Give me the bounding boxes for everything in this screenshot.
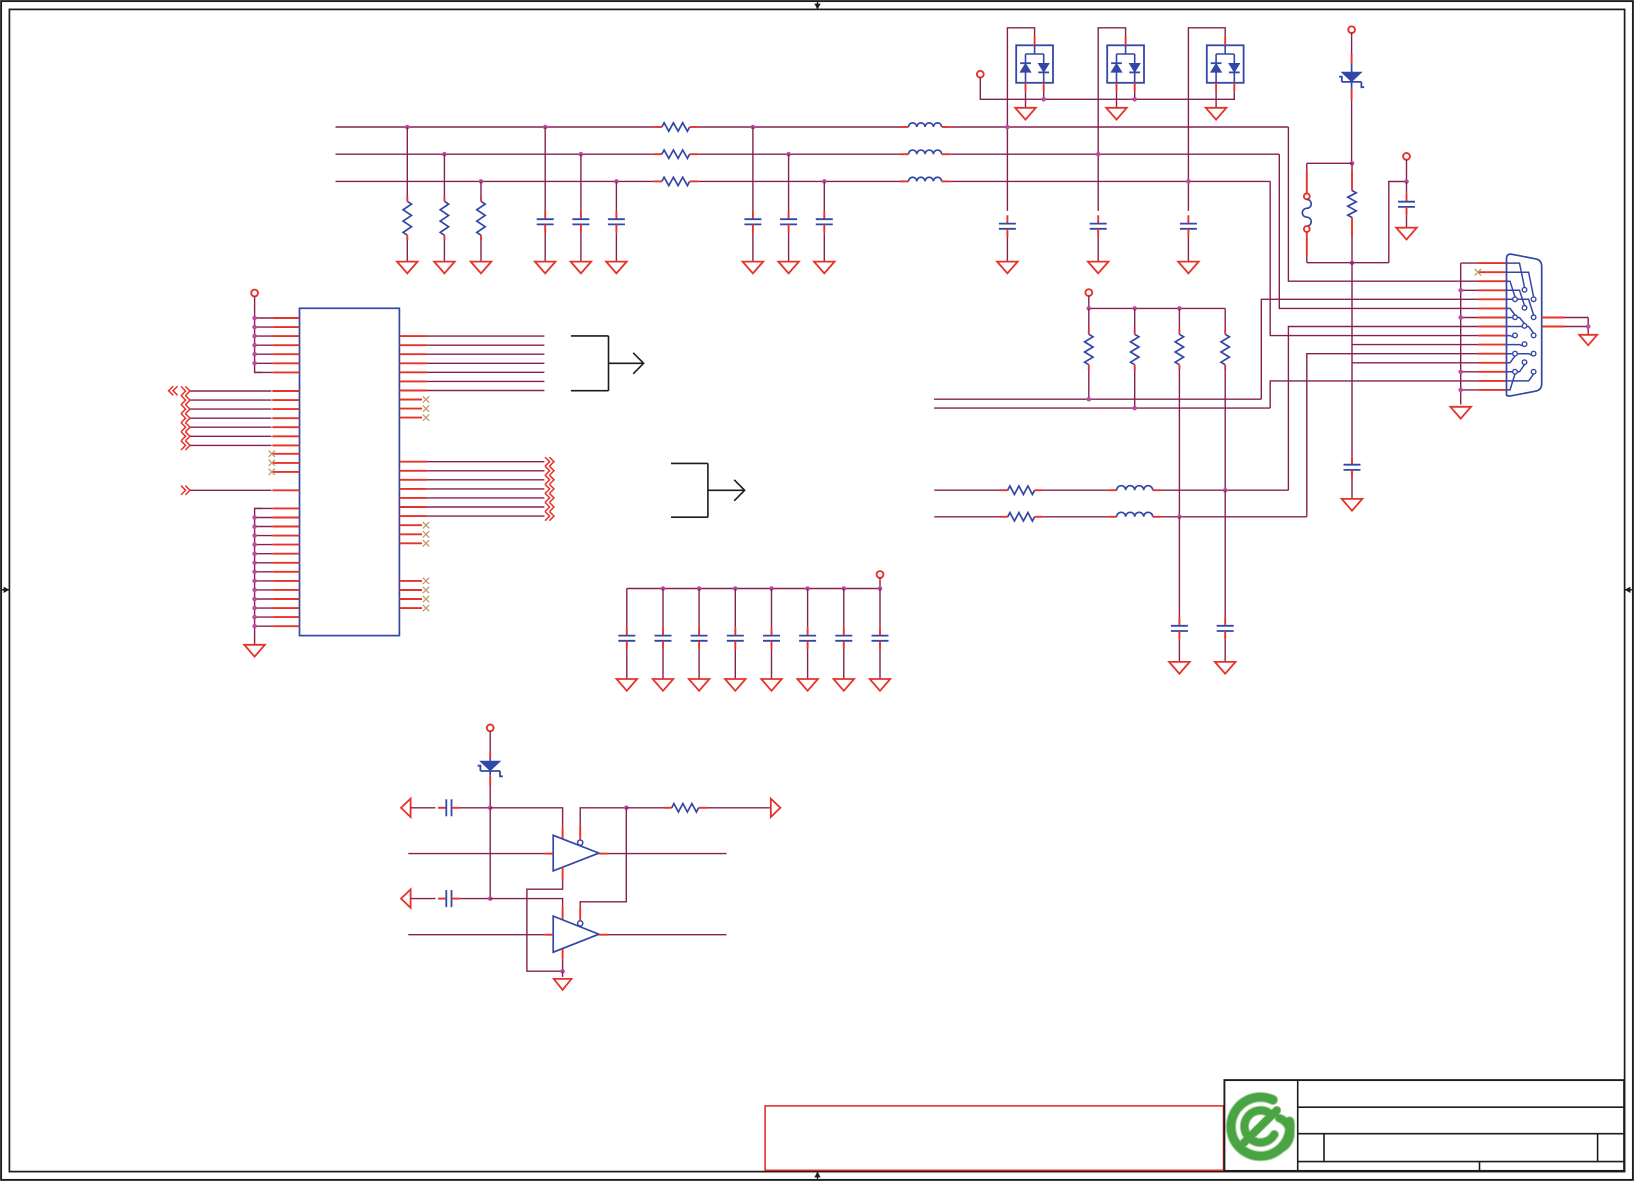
- wire C16 to bus: [698, 589, 700, 628]
- wire C1 to ground: [544, 233, 546, 262]
- capacitor C20: [843, 627, 845, 635]
- node junction R8 top: [1087, 306, 1092, 311]
- wire C20 to bus: [843, 589, 845, 628]
- capacitor C3: [615, 211, 617, 219]
- node junction R9-vsync: [1132, 406, 1137, 411]
- wire U1 right output A5: [399, 371, 426, 373]
- capacitor C15: [662, 627, 664, 635]
- power pin VCC for ESD diodes: [977, 71, 984, 78]
- node junction U1 ground rail: [252, 597, 257, 602]
- wire D2 right pin stub: [1134, 83, 1136, 91]
- resistor R10 pull-up: [1178, 308, 1180, 329]
- wire TVS net to connector pin12: [1352, 362, 1478, 364]
- ground under C6: [814, 262, 835, 274]
- wire C22 to node A: [460, 807, 490, 809]
- wire cap to ground: [1097, 237, 1099, 262]
- ground for buffers: [554, 979, 572, 990]
- no-connect U1 right nc B2: [399, 533, 422, 535]
- resistor R6 series in line: [653, 180, 662, 182]
- capacitor C5: [788, 211, 790, 219]
- frame tick arrow right: [1625, 589, 1632, 591]
- power pin for zener D5: [487, 725, 494, 732]
- no-connect U1 right nc B1: [399, 524, 422, 526]
- wire C2 to bus: [580, 154, 582, 211]
- wire U1 left pin 6: [255, 362, 273, 364]
- no-connect U1 right nc B3: [399, 542, 422, 544]
- diode pair ESD D2: [1107, 45, 1144, 83]
- wire U1 right output A2: [399, 344, 426, 346]
- node junction on bus at C2: [579, 152, 584, 157]
- wire enable net U3: [579, 906, 581, 921]
- wire U1 left pin 2: [255, 326, 273, 328]
- ground under C10: [1396, 228, 1417, 240]
- diode TVS D4: [1351, 64, 1353, 72]
- node junction ground rail pin15: [1458, 388, 1463, 393]
- ground under C18: [761, 679, 782, 691]
- ground under C17: [725, 679, 746, 691]
- node junction buffers ground: [560, 969, 565, 974]
- ground under C15: [653, 679, 674, 691]
- connector J1 DB15 shell: [1507, 254, 1542, 396]
- wire C3 to ground: [615, 233, 617, 262]
- wire VCC rail to ESD right pins: [980, 78, 1234, 100]
- wire enable net to resistor R14: [626, 807, 663, 809]
- wire R2 to ground: [443, 240, 445, 262]
- wire U1 left lower pin 2: [255, 517, 273, 519]
- wire C18 to bus: [771, 589, 773, 628]
- wire C10 to ground: [1406, 215, 1408, 228]
- resistor R5 series in line: [653, 153, 662, 155]
- wire C21 to ground: [879, 649, 881, 679]
- node junction U1 ground rail: [252, 624, 257, 629]
- node junction U1 ground rail: [252, 524, 257, 529]
- resistor R8 pull-up: [1088, 308, 1090, 329]
- node junction on bus at C1: [543, 125, 548, 130]
- ground under C12: [1215, 662, 1236, 674]
- off-page connector bracket 1: [571, 336, 609, 391]
- inductor L1 series in line: [900, 126, 909, 128]
- wire U1 left lower pin 6: [255, 553, 273, 555]
- wire R14 to output port: [707, 807, 771, 809]
- node junction DDC data - R10: [1177, 515, 1182, 520]
- wire R3 to ground: [480, 240, 482, 262]
- node junction ground rail pin4: [1458, 288, 1463, 293]
- wire U1 right output B4: [399, 488, 426, 490]
- wire C19 to bus: [807, 589, 809, 628]
- wire DDC clock line: [934, 489, 999, 491]
- wire U1 left lower pin 9: [255, 580, 273, 582]
- wire C2 to ground: [580, 233, 582, 262]
- enable bubble U3: [578, 921, 583, 926]
- wire U1 right output A7: [399, 390, 426, 392]
- wire C6 to bus: [823, 181, 825, 211]
- resistor R14 series: [663, 807, 672, 809]
- no-connect U1 left nc 1: [272, 453, 299, 455]
- node junction cap bank C19: [805, 586, 810, 591]
- node junction U1 power rail: [252, 343, 257, 348]
- wire U1 left lower pin 3: [255, 526, 273, 528]
- node junction on bus at C6: [822, 179, 827, 184]
- wire U1 bus input 6: [181, 432, 186, 441]
- wire U1 right output B3: [399, 479, 426, 481]
- no-connect U1 left nc 2: [272, 462, 299, 464]
- capacitor C11 on DDC data: [1178, 517, 1180, 618]
- capacitor C6: [823, 211, 825, 219]
- wire C15 to bus: [662, 589, 664, 628]
- node junction enable net: [624, 806, 629, 811]
- connector J1 internal traces and pins: [1507, 263, 1534, 390]
- port output right: [771, 799, 781, 817]
- node junction U1 ground rail: [252, 542, 257, 547]
- wire vsync net to connector pin14: [934, 407, 1270, 409]
- wire TVS bottom to node: [1351, 89, 1353, 100]
- wire U1 left lower pin 10: [255, 589, 273, 591]
- bus entry chevrons group: [169, 386, 174, 395]
- wire L6 to connector pin11: [1161, 516, 1307, 518]
- wire U1 left pin 4: [255, 344, 273, 346]
- node junction cap bank C16: [697, 586, 702, 591]
- inductor L6 series: [1108, 516, 1117, 518]
- ground under C19: [797, 679, 818, 691]
- wire hsync net to connector pin5: [934, 398, 1261, 400]
- wire U1 left pin 7: [255, 371, 273, 373]
- wire pull-up rail: [1088, 296, 1090, 309]
- wire U1 left lower pin 4: [255, 535, 273, 537]
- node junction U1 ground rail: [252, 615, 257, 620]
- wire J1 shell tab upper: [1542, 317, 1565, 319]
- wire D1 right pin stub: [1043, 83, 1045, 91]
- frame tick arrow left: [2, 589, 9, 591]
- wire U1 left pin 3: [255, 335, 273, 337]
- capacitor C9 on D3 net: [1187, 215, 1189, 223]
- wire U1 bus input 5: [181, 423, 186, 432]
- node B junction: [488, 896, 493, 901]
- wire U1 left pin 5: [255, 353, 273, 355]
- node junction R9 top: [1132, 306, 1137, 311]
- wire D1 top pin to bus: [1034, 36, 1036, 45]
- no-connect U1 right nc 2: [399, 408, 422, 410]
- wire U1 bus input 1: [181, 386, 186, 395]
- ground for U1: [244, 645, 265, 657]
- ground under R2: [434, 262, 455, 274]
- ground under C11: [1169, 662, 1190, 674]
- wire node B to buffer U3 top pin: [490, 899, 562, 907]
- wire U1 right output B7: [399, 515, 426, 517]
- no-connect U1 right nc C4: [399, 607, 422, 609]
- ground under connector rail: [1450, 407, 1471, 419]
- node junction U1 ground rail: [252, 588, 257, 593]
- wire output U3: [599, 934, 608, 936]
- node junction U1 ground rail: [252, 579, 257, 584]
- wire D1 left pin to ground: [1025, 83, 1027, 91]
- wire D3 left pin to ground: [1215, 83, 1217, 91]
- ground under R1: [397, 262, 418, 274]
- resistor R2: [443, 197, 445, 202]
- no-connect U1 right nc C2: [399, 589, 422, 591]
- ground under C5: [778, 262, 799, 274]
- capacitor C17: [734, 627, 736, 635]
- no-connect pin2 of J1: [1475, 269, 1481, 275]
- ground under D1: [1015, 108, 1036, 120]
- node junction shell tabs: [1586, 324, 1591, 329]
- capacitor C19: [807, 627, 809, 635]
- resistor R3: [480, 197, 482, 202]
- inductor L4 (vertical): [1306, 163, 1308, 170]
- wire U1 bus input 2: [181, 396, 186, 405]
- node junction U1 ground rail: [252, 533, 257, 538]
- wire R1 to bus: [406, 127, 408, 197]
- capacitor C14: [626, 627, 628, 635]
- wire TVS top: [1351, 33, 1353, 54]
- no-connect U1 right nc 1: [399, 399, 422, 401]
- node junction TVS net bottom: [1350, 260, 1355, 265]
- wire L4 bottom rail: [1307, 262, 1389, 264]
- node junction on bus at C5: [786, 152, 791, 157]
- wire R2 to bus: [443, 154, 445, 196]
- inductor L5 series: [1108, 489, 1117, 491]
- node junction on bus at R1: [405, 125, 410, 130]
- logo green emblem: [1231, 1097, 1290, 1156]
- wire C20 to ground: [843, 649, 845, 679]
- wire U1 power rail top-left: [255, 296, 263, 372]
- wire U1 left lower pin 7: [255, 562, 273, 564]
- ground under cap: [1088, 262, 1109, 274]
- capacitor C7 on D1 net: [1006, 215, 1008, 223]
- resistor R12 series: [999, 489, 1008, 491]
- resistor R13 series: [999, 516, 1008, 518]
- wire U1 right output B1: [399, 461, 426, 463]
- power pin for pull-up resistors: [1085, 289, 1092, 296]
- wire C23 to node B: [460, 898, 490, 900]
- resistor R11 pull-up: [1224, 308, 1226, 329]
- frame tick arrow bottom: [817, 1172, 819, 1179]
- no-connect U1 right nc C3: [399, 598, 422, 600]
- wire port2 to C23: [411, 898, 436, 900]
- node junction ground rail pin13: [1458, 370, 1463, 375]
- wire cap to ground: [1006, 237, 1008, 262]
- wire bus3 to connector pin9: [1270, 181, 1478, 335]
- node junction C10 net: [1404, 179, 1409, 184]
- wire cap bank bus: [879, 578, 881, 589]
- wire C4 to bus: [752, 127, 754, 211]
- ground under C1: [535, 262, 556, 274]
- ground for J1 shell: [1579, 335, 1597, 346]
- node junction U1 power rail: [252, 334, 257, 339]
- wire bus line 1 (video R): [336, 126, 654, 128]
- wire U2 bottom pin to rail: [562, 867, 564, 880]
- node junction cap bank C20: [842, 586, 847, 591]
- capacitor C23 series: [438, 898, 446, 900]
- node junction U1 ground rail: [252, 515, 257, 520]
- wire U1 left lower pin 14: [255, 625, 273, 627]
- buffer U3 tri-state: [553, 916, 599, 952]
- power pin for TVS D4: [1348, 26, 1355, 33]
- wire power to C10: [1406, 160, 1408, 182]
- node junction TVS net top: [1350, 161, 1355, 166]
- capacitor C2: [580, 211, 582, 219]
- resistor R7 (parallel with L4): [1351, 163, 1353, 171]
- ground under R3: [471, 262, 492, 274]
- wire R13 to L6: [1043, 516, 1108, 518]
- node junction D1-VCC: [1041, 97, 1046, 102]
- wire C5 to ground: [788, 233, 790, 262]
- wire bus1 to connector pin3: [1288, 127, 1478, 281]
- wire U3 bottom pin to ground: [562, 949, 564, 960]
- wire output U2: [599, 853, 608, 855]
- capacitor C4: [752, 211, 754, 219]
- node junction D2 net on bus: [1096, 152, 1101, 157]
- inductor L2 series in line: [900, 153, 909, 155]
- node junction U1 power rail: [252, 316, 257, 321]
- wire C15 to ground: [662, 649, 664, 679]
- wire U1 right output B6: [399, 506, 426, 508]
- wire C6 to ground: [823, 233, 825, 262]
- wire U1 right output A1: [399, 335, 426, 337]
- node junction ground rail pin7: [1458, 315, 1463, 320]
- inductor L3 series in line: [900, 180, 909, 182]
- capacitor C21: [879, 627, 881, 635]
- node junction DDC clock - R11: [1223, 488, 1228, 493]
- wire TVS net to connector pin10: [1351, 263, 1353, 457]
- wire C3 to bus: [615, 181, 617, 211]
- wire U1 bus input 3: [181, 405, 186, 414]
- capacitor C22 series: [438, 807, 446, 809]
- enable bubble U2: [578, 840, 583, 845]
- node junction U1 power rail: [252, 325, 257, 330]
- capacitor C1: [544, 211, 546, 219]
- wire D2 left pin to ground: [1116, 83, 1118, 91]
- wire node A down to node B: [489, 808, 491, 899]
- wire to C10 branch: [1389, 182, 1407, 263]
- ground under cap: [1178, 262, 1199, 274]
- wire U1 left lower pin 5: [255, 544, 273, 546]
- capacitor C16: [698, 627, 700, 635]
- node junction U1 ground rail: [252, 606, 257, 611]
- node A junction: [488, 806, 493, 811]
- wire bus line 2 (video G): [336, 153, 654, 155]
- wire zener to node A: [489, 775, 491, 786]
- node junction U1 ground rail: [252, 570, 257, 575]
- wire U1 bus input 7: [181, 441, 186, 450]
- wire R12 to L5: [1043, 489, 1108, 491]
- ground under C21: [870, 679, 891, 691]
- node junction U1 ground rail: [252, 561, 257, 566]
- capacitor C8 on D2 net: [1097, 215, 1099, 223]
- wire power to zener: [489, 731, 491, 751]
- node junction D2-VCC: [1132, 97, 1137, 102]
- wire U1 right output A6: [399, 380, 426, 382]
- ground under D2: [1106, 108, 1127, 120]
- wire DDC data line: [934, 516, 999, 518]
- wire U1 right output B5: [399, 497, 426, 499]
- wire bus line 3 (video B): [336, 180, 654, 182]
- node junction on bus at C4: [751, 125, 756, 130]
- resistor R4 series in line: [653, 126, 662, 128]
- ground under C13: [1342, 499, 1363, 511]
- ground under C14: [617, 679, 638, 691]
- wire U1 left pin 1: [255, 317, 273, 319]
- wire input 1 to buffer U2: [408, 853, 544, 855]
- diode pair ESD D3: [1207, 45, 1244, 83]
- ground under D3: [1206, 108, 1227, 120]
- frame tick arrow top: [817, 2, 819, 9]
- wire U1 right output B2: [399, 470, 426, 472]
- wire port1 to C22: [411, 807, 436, 809]
- ground under C2: [571, 262, 592, 274]
- node junction cap bank C21: [878, 586, 883, 591]
- power pin for C10: [1403, 153, 1410, 160]
- node junction on bus at R3: [479, 179, 484, 184]
- wire U1 ground rail bottom-left: [255, 508, 263, 644]
- wire C16 to ground: [698, 649, 700, 679]
- wire C21 to bus: [879, 589, 881, 628]
- no-connect U1 right nc C1: [399, 580, 422, 582]
- wire U1 left lower pin 11: [255, 598, 273, 600]
- wire C5 to bus: [788, 154, 790, 211]
- node junction cap bank C15: [661, 586, 666, 591]
- wire node to L4 top: [1307, 162, 1352, 164]
- power pin for U1: [251, 290, 258, 297]
- wire C1 to bus: [544, 127, 546, 211]
- off-page connector bracket 2: [671, 463, 708, 517]
- wire U1 left lower pin 1: [255, 507, 273, 509]
- wire U1 left lower pin 13: [255, 616, 273, 618]
- ground under C16: [689, 679, 710, 691]
- node junction R10 top: [1177, 306, 1182, 311]
- wire input 2 to buffer U3: [408, 934, 544, 936]
- wire U1 right output A3: [399, 353, 426, 355]
- wire U1 left lower pin 8: [255, 571, 273, 573]
- node junction D3 net on bus: [1186, 179, 1191, 184]
- wire D2 top pin to bus: [1125, 36, 1127, 45]
- wire R3 to bus: [480, 181, 482, 196]
- wire C17 to ground: [734, 649, 736, 679]
- resistor R1: [406, 197, 408, 202]
- diode pair ESD D1: [1016, 45, 1053, 83]
- diode zener D5: [489, 758, 491, 762]
- wire C14 to ground: [626, 649, 628, 679]
- wire enable net U2: [579, 826, 581, 840]
- no-connect U1 left nc 3: [272, 471, 299, 473]
- ground under C4: [743, 262, 764, 274]
- ground under C20: [834, 679, 855, 691]
- port input 2: [401, 889, 411, 907]
- power pin for cap bank: [877, 571, 884, 578]
- title block frame: [1224, 1080, 1624, 1171]
- wire L5 to connector pin8: [1161, 489, 1288, 491]
- port input 1: [401, 799, 411, 817]
- node junction U1 power rail: [252, 352, 257, 357]
- wire R1 to ground: [406, 240, 408, 262]
- wire bus2 to connector pin6: [1279, 154, 1478, 308]
- ground under cap: [997, 262, 1018, 274]
- buffer U2 tri-state: [553, 835, 599, 871]
- node junction on bus at C3: [614, 179, 619, 184]
- wire C17 to bus: [734, 589, 736, 628]
- wire cap to ground: [1187, 237, 1189, 262]
- wire U1 bus input 4: [181, 414, 186, 423]
- connector J1 pin stubs: [1478, 262, 1506, 264]
- capacitor C12 on DDC clock: [1224, 490, 1226, 617]
- wire connector ground rail: [1460, 263, 1462, 404]
- node junction U1 power rail: [252, 361, 257, 366]
- ic U1 main chip body: [300, 308, 400, 635]
- node junction U1 ground rail: [252, 551, 257, 556]
- revision table red box: [765, 1106, 1223, 1170]
- node junction cap bank C17: [733, 586, 738, 591]
- wire U1 right output A4: [399, 362, 426, 364]
- node junction R8-hsync: [1087, 397, 1092, 402]
